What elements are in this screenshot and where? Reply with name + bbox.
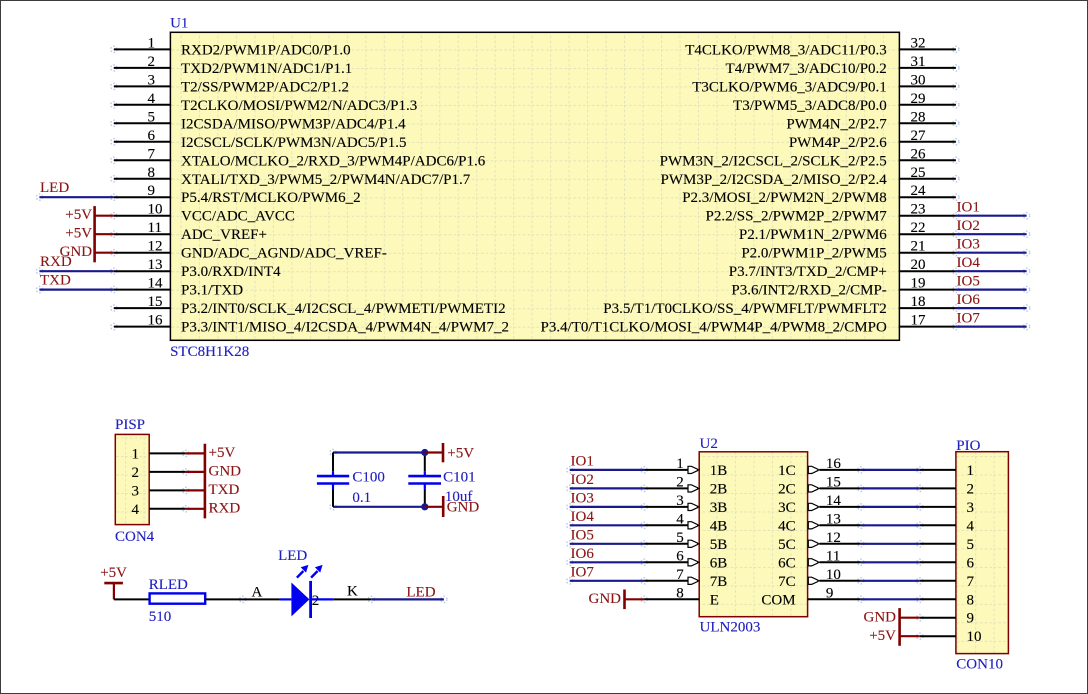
svg-text:9: 9 xyxy=(148,183,156,199)
svg-text:4C: 4C xyxy=(778,518,796,534)
svg-text:IO7: IO7 xyxy=(957,310,981,326)
svg-text:IO1: IO1 xyxy=(571,454,594,470)
svg-text:I2CSDA/MISO/PWM3P/ADC4/P1.4: I2CSDA/MISO/PWM3P/ADC4/P1.4 xyxy=(181,116,406,132)
svg-text:21: 21 xyxy=(911,239,926,255)
svg-text:3C: 3C xyxy=(778,500,796,516)
svg-text:T3/PWM5_3/ADC8/P0.0: T3/PWM5_3/ADC8/P0.0 xyxy=(733,98,887,114)
svg-text:6C: 6C xyxy=(778,555,796,571)
svg-text:29: 29 xyxy=(911,91,926,107)
svg-text:RXD2/PWM1P/ADC0/P1.0: RXD2/PWM1P/ADC0/P1.0 xyxy=(181,42,351,58)
svg-text:16: 16 xyxy=(148,313,164,329)
svg-text:P3.5/T1/T0CLKO/SS_4/PWMFLT/PWM: P3.5/T1/T0CLKO/SS_4/PWMFLT/PWMFLT2 xyxy=(603,301,887,317)
svg-text:7: 7 xyxy=(148,146,156,162)
svg-text:K: K xyxy=(347,584,358,600)
svg-text:I2CSCL/SCLK/PWM3N/ADC5/P1.5: I2CSCL/SCLK/PWM3N/ADC5/P1.5 xyxy=(181,135,406,151)
svg-text:510: 510 xyxy=(149,609,172,625)
svg-text:P2.0/PWM1P_2/PWM5: P2.0/PWM1P_2/PWM5 xyxy=(741,246,886,262)
svg-text:2: 2 xyxy=(312,593,320,609)
svg-text:12: 12 xyxy=(148,239,163,255)
svg-text:2: 2 xyxy=(967,481,975,497)
svg-text:10: 10 xyxy=(826,567,841,583)
svg-text:6B: 6B xyxy=(710,555,728,571)
svg-text:4B: 4B xyxy=(710,518,728,534)
svg-text:+5V: +5V xyxy=(65,207,92,223)
svg-text:U1: U1 xyxy=(170,16,188,32)
svg-text:10: 10 xyxy=(148,202,163,218)
svg-text:2: 2 xyxy=(148,54,156,70)
svg-text:COM: COM xyxy=(761,592,795,608)
svg-text:IO5: IO5 xyxy=(957,273,980,289)
svg-text:16: 16 xyxy=(826,456,842,472)
svg-text:1: 1 xyxy=(132,446,140,462)
svg-text:LED: LED xyxy=(406,584,435,600)
svg-text:RLED: RLED xyxy=(149,577,188,593)
svg-text:5: 5 xyxy=(967,537,975,553)
svg-text:P3.7/INT3/TXD_2/CMP+: P3.7/INT3/TXD_2/CMP+ xyxy=(729,264,887,280)
svg-text:1: 1 xyxy=(676,456,684,472)
svg-text:4: 4 xyxy=(148,91,156,107)
svg-text:9: 9 xyxy=(967,611,975,627)
svg-text:P2.2/SS_2/PWM2P_2/PWM7: P2.2/SS_2/PWM2P_2/PWM7 xyxy=(706,209,888,225)
svg-text:IO6: IO6 xyxy=(957,292,981,308)
svg-text:28: 28 xyxy=(911,109,926,125)
svg-text:+5V: +5V xyxy=(869,628,896,644)
svg-text:2B: 2B xyxy=(710,481,728,497)
svg-text:GND: GND xyxy=(864,610,897,626)
svg-text:T4CLKO/PWM8_3/ADC11/P0.3: T4CLKO/PWM8_3/ADC11/P0.3 xyxy=(685,42,887,58)
svg-text:P2.1/PWM1N_2/PWM6: P2.1/PWM1N_2/PWM6 xyxy=(739,227,887,243)
svg-text:9: 9 xyxy=(826,585,834,601)
svg-text:T2/SS/PWM2P/ADC2/P1.2: T2/SS/PWM2P/ADC2/P1.2 xyxy=(181,79,349,95)
svg-text:GND: GND xyxy=(209,464,242,480)
svg-text:14: 14 xyxy=(148,276,164,292)
svg-text:3: 3 xyxy=(676,493,684,509)
svg-text:PWM4P_2/P2.6: PWM4P_2/P2.6 xyxy=(789,135,887,151)
svg-text:3: 3 xyxy=(148,72,156,88)
svg-text:4: 4 xyxy=(132,502,140,518)
svg-text:P3.0/RXD/INT4: P3.0/RXD/INT4 xyxy=(181,264,281,280)
svg-text:11: 11 xyxy=(148,220,162,236)
svg-text:XTALO/MCLKO_2/RXD_3/PWM4P/ADC6: XTALO/MCLKO_2/RXD_3/PWM4P/ADC6/P1.6 xyxy=(181,153,486,169)
svg-text:3: 3 xyxy=(967,500,975,516)
svg-text:P3.1/TXD: P3.1/TXD xyxy=(181,283,243,299)
svg-text:12: 12 xyxy=(826,530,841,546)
svg-text:LED: LED xyxy=(278,548,307,564)
svg-text:3: 3 xyxy=(132,483,140,499)
svg-text:20: 20 xyxy=(911,257,926,273)
svg-text:6: 6 xyxy=(148,128,156,144)
svg-text:VCC/ADC_AVCC: VCC/ADC_AVCC xyxy=(181,209,295,225)
svg-text:32: 32 xyxy=(911,35,926,51)
svg-text:TXD: TXD xyxy=(209,482,240,498)
svg-text:7: 7 xyxy=(967,574,975,590)
svg-text:2C: 2C xyxy=(778,481,796,497)
svg-text:P2.3/MOSI_2/PWM2N_2/PWM8: P2.3/MOSI_2/PWM2N_2/PWM8 xyxy=(682,190,887,206)
svg-text:5: 5 xyxy=(148,109,156,125)
svg-text:30: 30 xyxy=(911,72,926,88)
svg-text:5B: 5B xyxy=(710,537,728,553)
svg-text:8: 8 xyxy=(967,592,975,608)
svg-text:7: 7 xyxy=(676,567,684,583)
svg-text:0.1: 0.1 xyxy=(352,490,371,506)
svg-text:T3CLKO/PWM6_3/ADC9/P0.1: T3CLKO/PWM6_3/ADC9/P0.1 xyxy=(692,79,887,95)
svg-text:P3.4/T0/T1CLKO/MOSI_4/PWM4P_4/: P3.4/T0/T1CLKO/MOSI_4/PWM4P_4/PWM8_2/CMP… xyxy=(541,320,887,336)
svg-text:ADC_VREF+: ADC_VREF+ xyxy=(181,227,267,243)
svg-text:E: E xyxy=(710,592,719,608)
svg-text:1B: 1B xyxy=(710,463,728,479)
svg-text:XTALI/TXD_3/PWM5_2/PWM4N/ADC7/: XTALI/TXD_3/PWM5_2/PWM4N/ADC7/P1.7 xyxy=(181,172,471,188)
svg-text:22: 22 xyxy=(911,220,926,236)
svg-text:PISP: PISP xyxy=(115,417,145,433)
svg-text:PWM3N_2/I2CSCL_2/SCLK_2/P2.5: PWM3N_2/I2CSCL_2/SCLK_2/P2.5 xyxy=(660,153,887,169)
svg-text:24: 24 xyxy=(911,183,927,199)
svg-text:GND/ADC_AGND/ADC_VREF-: GND/ADC_AGND/ADC_VREF- xyxy=(181,246,387,262)
svg-text:CON4: CON4 xyxy=(115,529,155,545)
svg-text:C100: C100 xyxy=(352,470,385,486)
svg-text:1: 1 xyxy=(148,35,156,51)
svg-text:4: 4 xyxy=(676,511,684,527)
svg-text:P3.6/INT2/RXD_2/CMP-: P3.6/INT2/RXD_2/CMP- xyxy=(731,283,886,299)
svg-text:TXD2/PWM1N/ADC1/P1.1: TXD2/PWM1N/ADC1/P1.1 xyxy=(181,61,352,77)
svg-text:A: A xyxy=(252,585,263,601)
svg-text:GND: GND xyxy=(447,500,480,516)
svg-text:CON10: CON10 xyxy=(956,657,1003,673)
svg-text:15: 15 xyxy=(826,474,841,490)
svg-text:5: 5 xyxy=(676,530,684,546)
svg-text:T2CLKO/MOSI/PWM2/N/ADC3/P1.3: T2CLKO/MOSI/PWM2/N/ADC3/P1.3 xyxy=(181,98,417,114)
svg-text:IO3: IO3 xyxy=(571,491,594,507)
svg-text:1: 1 xyxy=(967,463,975,479)
svg-text:+5V: +5V xyxy=(209,445,236,461)
svg-text:13: 13 xyxy=(826,511,841,527)
svg-text:IO5: IO5 xyxy=(571,528,594,544)
svg-text:3B: 3B xyxy=(710,500,728,516)
svg-text:PWM3P_2/I2CSDA_2/MISO_2/P2.4: PWM3P_2/I2CSDA_2/MISO_2/P2.4 xyxy=(661,172,888,188)
svg-text:P3.2/INT0/SCLK_4/I2CSCL_4/PWME: P3.2/INT0/SCLK_4/I2CSCL_4/PWMETI/PWMETI2 xyxy=(181,301,506,317)
svg-text:IO3: IO3 xyxy=(957,237,980,253)
svg-text:IO4: IO4 xyxy=(571,509,595,525)
svg-text:1C: 1C xyxy=(778,463,796,479)
svg-text:+5V: +5V xyxy=(65,226,92,242)
svg-text:13: 13 xyxy=(148,257,163,273)
svg-text:8: 8 xyxy=(676,585,684,601)
svg-text:+5V: +5V xyxy=(447,445,474,461)
svg-text:IO6: IO6 xyxy=(571,546,595,562)
svg-text:7C: 7C xyxy=(778,574,796,590)
svg-text:10: 10 xyxy=(967,629,982,645)
svg-text:PWM4N_2/P2.7: PWM4N_2/P2.7 xyxy=(786,116,887,132)
svg-text:TXD: TXD xyxy=(40,273,71,289)
svg-text:IO2: IO2 xyxy=(957,218,980,234)
svg-text:U2: U2 xyxy=(700,436,718,452)
svg-text:PIO: PIO xyxy=(956,438,980,454)
svg-text:GND: GND xyxy=(589,591,622,607)
svg-text:31: 31 xyxy=(911,54,926,70)
svg-text:7B: 7B xyxy=(710,574,728,590)
svg-text:STC8H1K28: STC8H1K28 xyxy=(170,344,249,360)
svg-text:T4/PWM7_3/ADC10/P0.2: T4/PWM7_3/ADC10/P0.2 xyxy=(726,61,887,77)
svg-text:14: 14 xyxy=(826,493,842,509)
svg-text:17: 17 xyxy=(911,313,927,329)
svg-text:18: 18 xyxy=(911,294,926,310)
svg-text:2: 2 xyxy=(132,465,140,481)
svg-text:C101: C101 xyxy=(443,470,476,486)
svg-text:6: 6 xyxy=(676,548,684,564)
svg-text:23: 23 xyxy=(911,202,926,218)
svg-text:LED: LED xyxy=(40,180,69,196)
svg-text:11: 11 xyxy=(826,548,840,564)
svg-text:15: 15 xyxy=(148,294,163,310)
svg-text:26: 26 xyxy=(911,146,927,162)
svg-text:P5.4/RST/MCLKO/PWM6_2: P5.4/RST/MCLKO/PWM6_2 xyxy=(181,190,361,206)
svg-text:IO7: IO7 xyxy=(571,565,595,581)
svg-text:IO2: IO2 xyxy=(571,472,594,488)
svg-text:25: 25 xyxy=(911,165,926,181)
svg-text:ULN2003: ULN2003 xyxy=(700,619,761,635)
svg-text:6: 6 xyxy=(967,555,975,571)
svg-text:19: 19 xyxy=(911,276,926,292)
svg-text:5C: 5C xyxy=(778,537,796,553)
svg-text:IO1: IO1 xyxy=(957,200,980,216)
svg-text:GND: GND xyxy=(60,244,93,260)
svg-text:27: 27 xyxy=(911,128,927,144)
svg-text:2: 2 xyxy=(676,474,684,490)
svg-text:P3.3/INT1/MISO_4/I2CSDA_4/PWM4: P3.3/INT1/MISO_4/I2CSDA_4/PWM4N_4/PWM7_2 xyxy=(181,320,509,336)
svg-text:8: 8 xyxy=(148,165,156,181)
svg-text:IO4: IO4 xyxy=(957,255,981,271)
svg-text:4: 4 xyxy=(967,518,975,534)
svg-text:+5V: +5V xyxy=(100,565,127,581)
svg-text:RXD: RXD xyxy=(209,501,241,517)
